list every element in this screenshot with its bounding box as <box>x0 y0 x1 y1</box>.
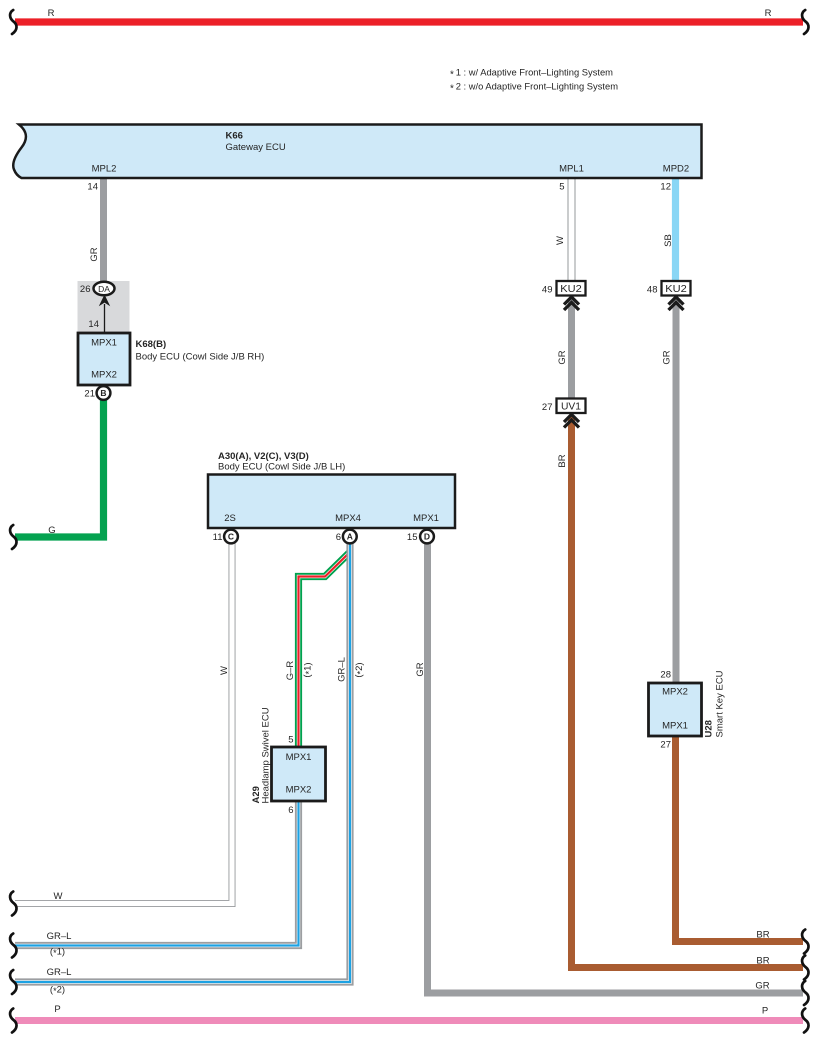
svg-text:BR: BR <box>756 930 769 941</box>
svg-text:MPL1: MPL1 <box>559 164 584 175</box>
svg-text:C: C <box>228 532 234 542</box>
svg-text:W: W <box>555 236 566 245</box>
shield area (gray) at K68 <box>78 281 130 333</box>
svg-text:W: W <box>54 891 63 902</box>
pin 6 connector A circle <box>336 530 357 544</box>
svg-text:SB: SB <box>663 234 674 247</box>
svg-text:R: R <box>48 8 55 19</box>
svg-text:27: 27 <box>542 402 553 413</box>
svg-text:MPX2: MPX2 <box>662 687 688 698</box>
break symbol left of wire P <box>10 1009 16 1033</box>
svg-text:KU2: KU2 <box>560 284 582 295</box>
svg-text:15: 15 <box>407 532 418 543</box>
wire GR between connector KU2(49) and UV1 <box>557 299 572 399</box>
svg-text:KU2: KU2 <box>665 284 687 295</box>
connector KU2 (49) <box>542 281 586 296</box>
wire G-R from A30 pin 6(A) to A29 MPX1 pin 5 <box>285 551 351 747</box>
svg-text:27: 27 <box>660 740 671 751</box>
svg-text:R: R <box>765 8 772 19</box>
break symbol left of wire R <box>10 10 16 34</box>
svg-text:B: B <box>100 388 106 398</box>
svg-text:11: 11 <box>213 532 223 543</box>
svg-text:DA: DA <box>98 284 110 294</box>
wire GR from A30 pin 15(D) to right edge <box>415 543 803 993</box>
svg-text:Body ECU (Cowl Side J/B RH): Body ECU (Cowl Side J/B RH) <box>136 352 265 363</box>
double chevron below KU2 (48) <box>669 297 684 310</box>
svg-text:GR: GR <box>89 247 100 261</box>
break symbol left of wire W <box>10 892 16 916</box>
wire GR-L (*1) from A29 MPX2 pin 6 to left edge <box>15 801 299 958</box>
svg-text:* 2 : w/o Adaptive Front–Light: * 2 : w/o Adaptive Front–Lighting System <box>450 82 618 95</box>
pin 21 connector B circle <box>84 386 110 400</box>
svg-text:W: W <box>219 666 230 675</box>
svg-text:BR: BR <box>756 956 769 967</box>
svg-text:UV1: UV1 <box>561 401 581 412</box>
svg-text:GR: GR <box>755 981 769 992</box>
shield drain arrow into DA <box>88 295 110 334</box>
ECU K68(B) Body ECU box <box>78 333 264 385</box>
wire GR-L (*2) from A30 pin 6(A) to left edge <box>15 543 366 996</box>
svg-text:GR–L: GR–L <box>47 931 72 942</box>
svg-text:Gateway ECU: Gateway ECU <box>226 142 286 153</box>
svg-text:BR: BR <box>557 454 568 467</box>
svg-text:MPX1: MPX1 <box>91 338 117 349</box>
svg-text:(*2): (*2) <box>354 662 366 677</box>
svg-text:MPX1: MPX1 <box>286 752 312 763</box>
svg-text:GR: GR <box>557 350 568 364</box>
wire GR between connector KU2(48) and U28 pin 28 <box>660 299 676 683</box>
svg-text:GR–L: GR–L <box>337 657 348 682</box>
svg-text:A30(A), V2(C), V3(D): A30(A), V2(C), V3(D) <box>218 451 309 462</box>
wire G from K68 pin 21 to left edge <box>15 400 104 537</box>
svg-text:A: A <box>347 532 353 542</box>
wire GR from K66 MPL2 pin 14 <box>87 178 103 281</box>
break symbol right of wire GR <box>802 981 808 1005</box>
svg-text:MPX2: MPX2 <box>286 785 312 796</box>
double chevron below UV1 <box>564 415 579 428</box>
connector UV1 (27) <box>542 399 586 414</box>
wire W from K66 MPL1 pin 5 <box>555 178 575 282</box>
svg-text:D: D <box>424 532 430 542</box>
svg-text:GR: GR <box>415 662 426 676</box>
svg-text:(*1): (*1) <box>50 947 65 959</box>
wire P (pink) along bottom <box>15 1004 803 1021</box>
svg-text:14: 14 <box>87 182 98 193</box>
svg-text:P: P <box>762 1006 768 1017</box>
svg-text:6: 6 <box>336 532 341 543</box>
note asterisk legend <box>450 68 618 95</box>
wire SB from K66 MPD2 pin 12 <box>660 178 675 282</box>
ECU A30 Body ECU box <box>208 451 455 528</box>
svg-text:5: 5 <box>559 182 564 193</box>
svg-text:(*1): (*1) <box>302 662 314 677</box>
svg-text:K66: K66 <box>226 131 243 142</box>
connector DA (26) oval <box>80 282 115 296</box>
svg-text:GR: GR <box>662 350 673 364</box>
wire BR from U28 pin 27 to right edge <box>660 736 803 942</box>
break symbol right of wire BR (UV1) <box>802 956 808 980</box>
svg-text:Body ECU (Cowl Side J/B LH): Body ECU (Cowl Side J/B LH) <box>218 462 345 473</box>
pin 11 connector C circle <box>213 530 238 544</box>
svg-text:49: 49 <box>542 285 553 296</box>
break symbol left of wire GR-L (*1) <box>10 934 16 958</box>
break symbol right of wire BR (U28) <box>802 930 808 954</box>
svg-text:21: 21 <box>84 389 95 400</box>
svg-text:28: 28 <box>660 670 671 681</box>
svg-text:48: 48 <box>647 285 658 296</box>
svg-text:5: 5 <box>288 735 293 746</box>
break symbol right of wire P <box>802 1009 808 1033</box>
double chevron below KU2 (49) <box>564 297 579 310</box>
svg-text:12: 12 <box>660 182 671 193</box>
svg-text:14: 14 <box>88 319 99 330</box>
break symbol right of wire R <box>802 10 808 34</box>
svg-text:26: 26 <box>80 284 91 295</box>
svg-text:G–R: G–R <box>285 661 296 681</box>
ECU K66 Gateway ECU box <box>13 125 701 179</box>
svg-text:GR–L: GR–L <box>47 967 72 978</box>
svg-text:* 1 : w/ Adaptive Front–Lighti: * 1 : w/ Adaptive Front–Lighting System <box>450 68 613 81</box>
wire W from A30 pin 11(C) to left edge <box>15 543 232 904</box>
svg-text:G: G <box>48 525 55 536</box>
svg-text:P: P <box>54 1004 60 1015</box>
connector KU2 (48) <box>647 281 691 296</box>
svg-text:MPD2: MPD2 <box>663 164 689 175</box>
svg-text:U28: U28 <box>704 720 715 737</box>
svg-text:MPX2: MPX2 <box>91 370 117 381</box>
break symbol left of wire G <box>10 525 16 549</box>
svg-text:MPX1: MPX1 <box>662 721 688 732</box>
break symbol left of wire GR-L (*2) <box>10 970 16 994</box>
svg-text:(*2): (*2) <box>50 985 65 997</box>
wire R (red CAN bus) <box>15 8 803 22</box>
svg-text:MPX4: MPX4 <box>335 513 361 524</box>
svg-text:MPL2: MPL2 <box>92 164 117 175</box>
ECU U28 Smart Key ECU box <box>649 670 726 737</box>
svg-text:Headlamp Swivel ECU: Headlamp Swivel ECU <box>261 707 272 803</box>
svg-text:MPX1: MPX1 <box>413 513 439 524</box>
svg-text:K68(B): K68(B) <box>136 339 167 350</box>
ECU A29 Headlamp Swivel ECU box <box>251 707 326 803</box>
pin 15 connector D circle <box>407 530 434 544</box>
svg-text:Smart Key ECU: Smart Key ECU <box>715 670 726 737</box>
svg-text:6: 6 <box>288 805 293 816</box>
svg-text:2S: 2S <box>224 513 236 524</box>
wire BR from UV1 to right edge <box>557 416 803 968</box>
